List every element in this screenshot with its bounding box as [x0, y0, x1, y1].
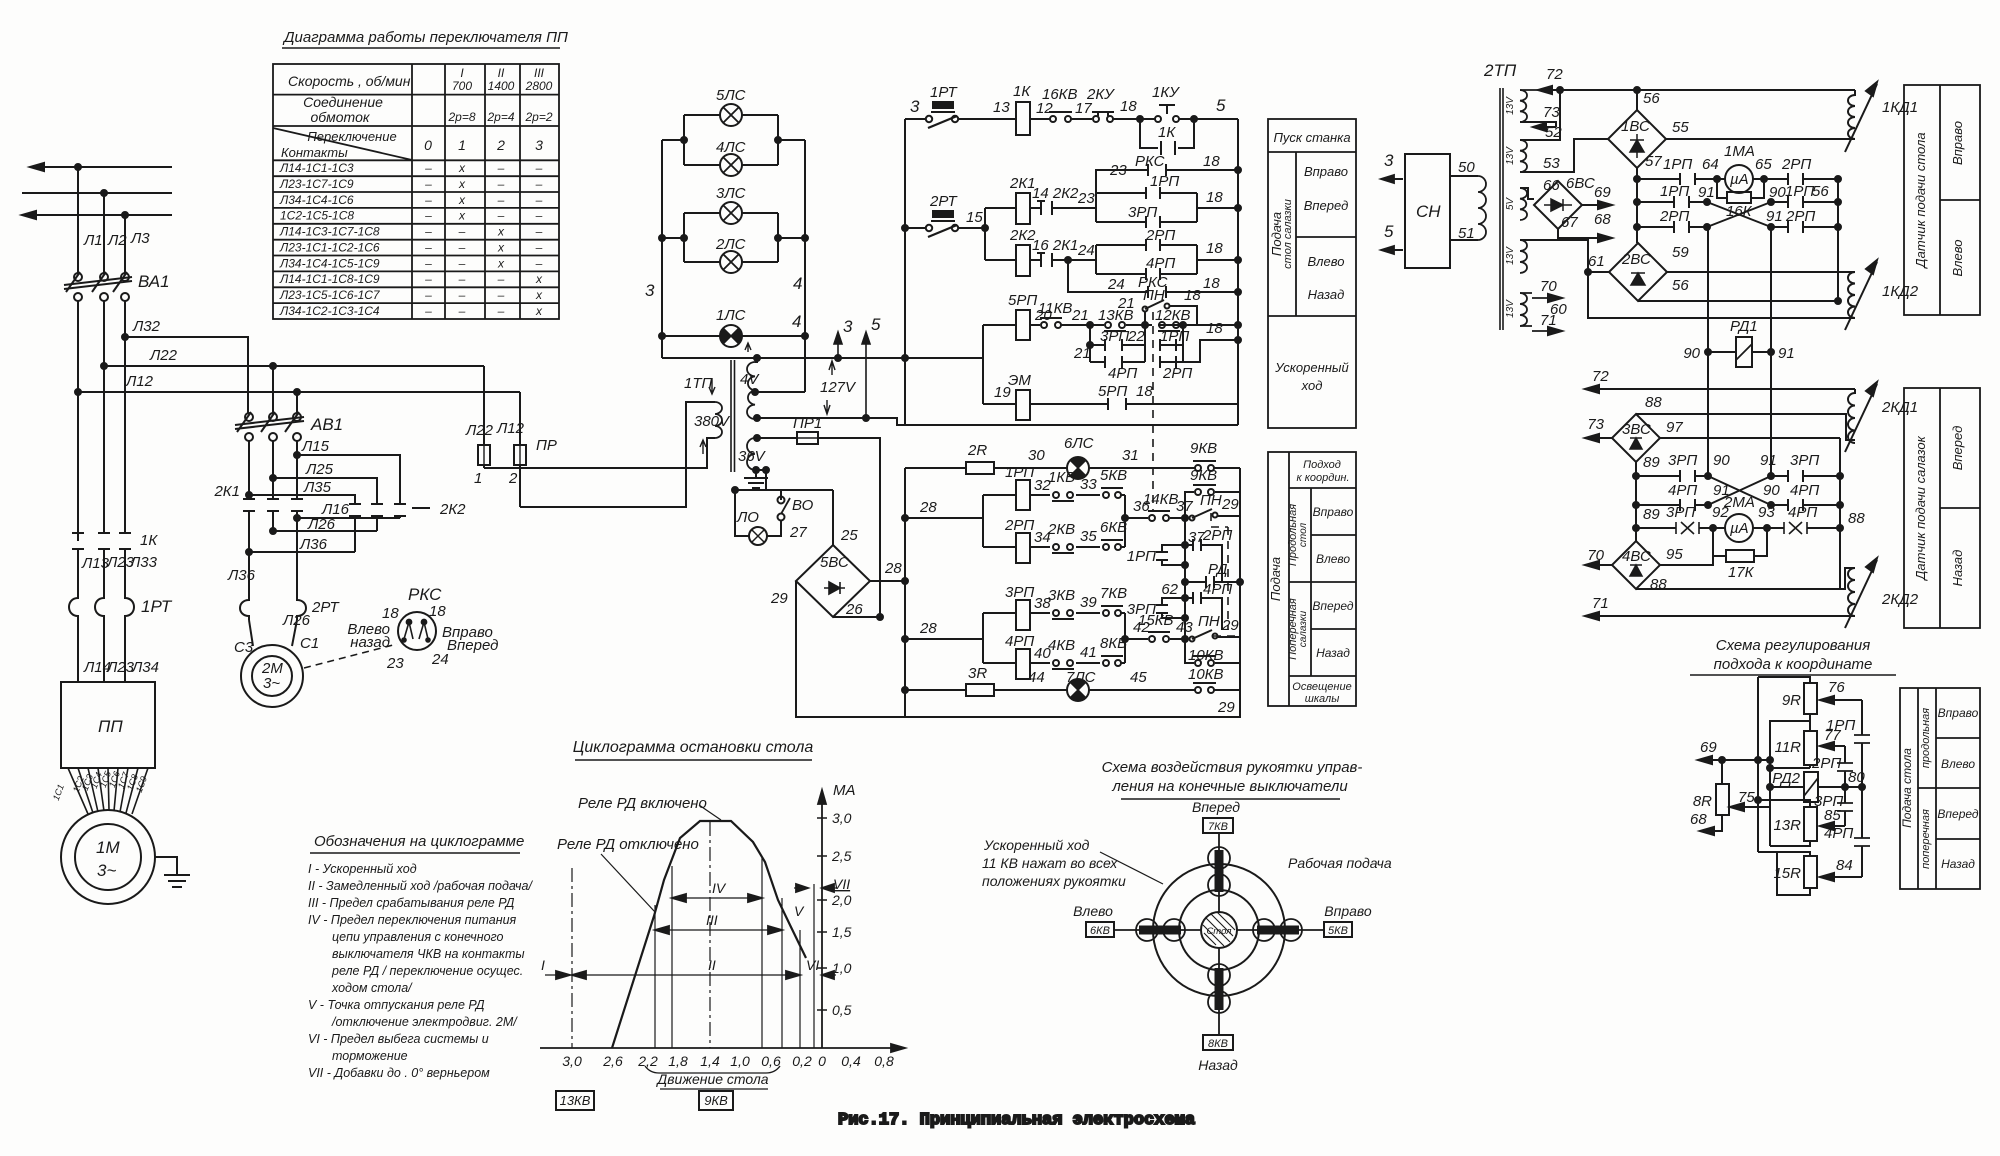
node Л22: [101, 363, 107, 369]
wire Л26: [273, 530, 377, 532]
svg-text:4КВ: 4КВ: [1048, 637, 1075, 654]
tap 66 to 6ВС: [1520, 188, 1534, 199]
svg-text:127V: 127V: [820, 379, 857, 396]
svg-text:1ВС: 1ВС: [1621, 118, 1650, 135]
parallel contacts 2РП / 4РП: [1096, 227, 1241, 280]
svg-text:–: –: [424, 225, 432, 239]
meter 2МА: [1725, 514, 1753, 542]
svg-text:VII: VII: [833, 876, 850, 892]
svg-text:Л23-1С5-1С6-1С7: Л23-1С5-1С6-1С7: [279, 288, 381, 302]
svg-text:Л23: Л23: [106, 659, 135, 676]
svg-text:Влево: Влево: [1308, 254, 1345, 269]
svg-text:3: 3: [910, 97, 920, 116]
wire Л1: [77, 167, 79, 273]
svg-text:18: 18: [1184, 287, 1201, 304]
contact РКС upper (23-18): [1096, 170, 1238, 193]
wire to АВ1 pole3: [296, 392, 298, 413]
svg-text:x: x: [497, 241, 505, 255]
svg-text:Назад: Назад: [1198, 1057, 1238, 1073]
leads into 2М: [249, 620, 297, 646]
svg-text:3РП: 3РП: [1100, 328, 1129, 345]
resistor 17К: [1713, 528, 1767, 556]
svg-text:15: 15: [966, 209, 983, 226]
svg-text:1РП: 1РП: [1127, 548, 1156, 565]
supply line L3: [22, 214, 172, 216]
box 5КВ: [1324, 922, 1352, 937]
stabilizer СН: [1405, 154, 1450, 268]
svg-text:2РТ: 2РТ: [311, 599, 341, 616]
coil 1РП: [983, 494, 1125, 496]
transformer 2ТП core: [1500, 88, 1503, 330]
svg-text:–: –: [458, 225, 466, 239]
horizontal spoke: [1114, 929, 1324, 931]
node L2 drop: [101, 190, 107, 196]
svg-text:21: 21: [1073, 345, 1091, 362]
svg-text:ВО: ВО: [792, 497, 814, 514]
svg-text:Назад: Назад: [1316, 646, 1350, 660]
svg-text:8КВ: 8КВ: [1208, 1038, 1228, 1050]
svg-text:5КВ: 5КВ: [1328, 925, 1348, 937]
svg-text:2р=4: 2р=4: [486, 110, 514, 124]
svg-text:шкалы: шкалы: [1305, 693, 1340, 705]
cross diagonals lower: [1708, 476, 1771, 505]
2ТП primary winding: [1450, 176, 1478, 240]
svg-text:2РП: 2РП: [1659, 208, 1689, 225]
svg-text:3ВС: 3ВС: [1622, 421, 1651, 438]
svg-text:13V: 13V: [1505, 246, 1516, 265]
wire to АВ1 pole2: [272, 366, 274, 413]
svg-text:29: 29: [770, 590, 788, 607]
svg-text:18: 18: [429, 603, 446, 620]
svg-text:89: 89: [1643, 506, 1660, 523]
wires below 2К2: [355, 516, 400, 552]
svg-text:39: 39: [1080, 594, 1097, 611]
svg-text:4РП: 4РП: [1005, 633, 1034, 650]
wires into ПП: [78, 621, 125, 682]
svg-text:назад: назад: [350, 634, 390, 651]
svg-text:–: –: [424, 304, 432, 318]
svg-text:73: 73: [1587, 416, 1604, 433]
mark VII arrow: [824, 887, 836, 889]
svg-text:–: –: [497, 272, 505, 286]
svg-text:1РТ: 1РТ: [930, 84, 959, 101]
svg-text:3РП: 3РП: [1668, 452, 1697, 469]
contact 15КВ: [1149, 636, 1155, 642]
cross net rows: [1634, 199, 1640, 205]
arrow 85: [1820, 825, 1845, 827]
wire 36V bottom to bridge: [763, 467, 769, 473]
svg-text:5РП: 5РП: [1008, 292, 1037, 309]
svg-text:1,0: 1,0: [730, 1053, 750, 1069]
svg-text:23: 23: [1077, 190, 1095, 207]
branch to 5РП / ЭМ: [905, 325, 983, 404]
svg-text:Движение стола: Движение стола: [655, 1071, 768, 1087]
svg-text:56: 56: [1672, 277, 1689, 294]
svg-text:I - Ускоренный ход: I - Ускоренный ход: [308, 862, 417, 876]
svg-text:45: 45: [1130, 669, 1147, 686]
svg-text:0,2: 0,2: [792, 1053, 812, 1069]
svg-text:1РП: 1РП: [1160, 328, 1189, 345]
wire Л15: [297, 455, 400, 503]
wire 9R-11R junction: [1770, 714, 1810, 846]
motor 2М leads: [249, 518, 297, 595]
svg-text:–: –: [458, 272, 466, 286]
svg-text:–: –: [535, 241, 543, 255]
svg-text:–: –: [535, 256, 543, 270]
resistor 8R: [1700, 760, 1722, 831]
svg-text:µА: µА: [1730, 520, 1749, 537]
buses 90 91: [1708, 227, 1771, 476]
wire Л25: [273, 478, 377, 503]
tap 52: [1520, 90, 1560, 140]
reg network left bus: [1757, 677, 1759, 852]
row 4РП 91: [1636, 504, 1840, 506]
svg-text:55: 55: [1672, 119, 1689, 136]
wires below 2К1: [249, 511, 297, 552]
svg-text:Л36: Л36: [227, 567, 256, 584]
4ВС left arrow 70: [1585, 564, 1612, 566]
svg-text:поперечная: поперечная: [1920, 809, 1932, 869]
svg-text:Л33: Л33: [129, 554, 158, 571]
wire 60 / W4 feed: [1520, 240, 1855, 318]
svg-text:III: III: [706, 912, 718, 928]
wire Л32 branch: [125, 337, 248, 413]
svg-text:Л34: Л34: [131, 659, 159, 676]
svg-text:Переключение: Переключение: [307, 129, 396, 144]
svg-text:26: 26: [845, 601, 863, 618]
svg-text:Вперед: Вперед: [1192, 799, 1240, 815]
svg-text:µА: µА: [1730, 171, 1749, 188]
svg-text:Обозначения на циклограмме: Обозначения на циклограмме: [314, 833, 524, 850]
svg-text:6ЛС: 6ЛС: [1064, 435, 1094, 452]
title Схема регулирования подхода к координате: [1714, 637, 1873, 673]
svg-text:4ВС: 4ВС: [1622, 548, 1651, 565]
svg-text:2р=8: 2р=8: [447, 110, 475, 124]
svg-text:РД1: РД1: [1730, 318, 1758, 335]
svg-text:Циклограмма остановки стола: Циклограмма остановки стола: [573, 739, 814, 756]
svg-text:13КВ: 13КВ: [1098, 307, 1134, 324]
svg-text:–: –: [497, 209, 505, 223]
svg-text:69: 69: [1594, 184, 1611, 201]
svg-text:Рабочая подача: Рабочая подача: [1288, 855, 1392, 871]
svg-text:–: –: [535, 209, 543, 223]
coil 2РП: [983, 546, 1125, 548]
mode box 1 (Пуск станка): [1268, 119, 1356, 428]
switch ПН upper: [1190, 516, 1195, 521]
lamp 2ЛС: [720, 251, 742, 273]
svg-text:продольная: продольная: [1920, 708, 1932, 768]
svg-text:3R: 3R: [968, 665, 987, 682]
4ВС right wire 95: [1660, 556, 1713, 565]
motor 1М: [61, 810, 155, 904]
svg-text:1400: 1400: [488, 79, 515, 93]
svg-text:30: 30: [1028, 447, 1045, 464]
table: Диаграмма работы переключателя ПП: [273, 29, 568, 319]
svg-text:II: II: [708, 957, 716, 973]
contact 3РП loop: [1182, 595, 1188, 601]
svg-text:19: 19: [994, 384, 1011, 401]
wire 13R top: [1758, 800, 1810, 807]
svg-text:88: 88: [1848, 510, 1865, 527]
svg-text:Л12: Л12: [496, 420, 525, 437]
svg-text:Подача: Подача: [1268, 557, 1283, 601]
dim IV: [672, 897, 762, 899]
svg-text:Л22: Л22: [465, 422, 494, 439]
svg-text:–: –: [458, 256, 466, 270]
contact 3КВ: [1053, 610, 1059, 616]
main measuring row: [1636, 168, 1638, 243]
outer circle: [1153, 864, 1285, 996]
svg-text:Датчик подачи салазок: Датчик подачи салазок: [1913, 435, 1928, 581]
tap 73: [1520, 122, 1556, 127]
svg-text:Пуск станка: Пуск станка: [1273, 130, 1350, 145]
right bus (node 4): [804, 140, 806, 392]
inductor 2КД2: [1845, 558, 1919, 628]
svg-text:2РП: 2РП: [1785, 208, 1815, 225]
svg-text:Влево: Влево: [1316, 552, 1350, 566]
svg-text:СН: СН: [1416, 202, 1441, 221]
thermal 1РТ loops: [69, 593, 173, 621]
svg-text:Вправо: Вправо: [1950, 121, 1965, 165]
svg-text:1РП: 1РП: [1005, 464, 1034, 481]
svg-text:1РП: 1РП: [1785, 183, 1814, 200]
wire 29 from bridge: [796, 581, 1240, 717]
lamp group bus left (node 3): [661, 140, 663, 358]
svg-text:Л25: Л25: [305, 461, 334, 478]
svg-text:5V: 5V: [1505, 197, 1516, 211]
svg-text:–: –: [497, 304, 505, 318]
parallel contacts 1РП / 3РП: [1096, 173, 1241, 228]
svg-text:13КВ: 13КВ: [560, 1093, 591, 1108]
svg-text:–: –: [424, 209, 432, 223]
svg-text:2ВС: 2ВС: [1621, 251, 1651, 268]
middle contact net vertical: [1184, 518, 1186, 639]
node Л25 tap: [270, 475, 276, 481]
2ТП winding 13V (1): [1520, 90, 1527, 122]
bottom row wire: [905, 689, 1240, 691]
resistor 3R: [966, 684, 994, 696]
svg-text:97: 97: [1666, 419, 1683, 436]
fuse Л22: [483, 366, 485, 468]
svg-text:61: 61: [1588, 253, 1605, 270]
svg-text:1,5: 1,5: [832, 924, 852, 940]
switch ВО: [778, 514, 785, 521]
svg-text:Диаграмма работы переключате: Диаграмма работы переключателя ПП: [282, 29, 568, 46]
svg-text:27: 27: [789, 524, 807, 541]
svg-text:ЭМ: ЭМ: [1008, 372, 1031, 389]
svg-text:9R: 9R: [1782, 692, 1801, 709]
svg-text:1РП: 1РП: [1150, 173, 1179, 190]
svg-text:9КВ: 9КВ: [704, 1093, 728, 1108]
svg-text:1К: 1К: [140, 532, 158, 549]
rectifier 5ВС: [770, 527, 902, 618]
svg-text:Л23-1С1-1С2-1С6: Л23-1С1-1С2-1С6: [279, 241, 380, 255]
svg-text:Л14-1С1-1С3: Л14-1С1-1С3: [279, 161, 354, 175]
svg-text:10КВ: 10КВ: [1188, 647, 1224, 664]
svg-text:Л14-1С1-1С8-1С9: Л14-1С1-1С8-1С9: [279, 272, 380, 286]
lamp 5ЛС: [720, 104, 742, 126]
resistor 16К: [1717, 179, 1764, 198]
svg-text:13: 13: [993, 99, 1010, 116]
svg-text:Скорость , об/мин: Скорость , об/мин: [288, 73, 411, 89]
rectifier 3ВС: [1587, 394, 1683, 462]
svg-text:18: 18: [1120, 98, 1137, 115]
4ВС bottom wire 88 to 2КД2: [1636, 568, 1855, 589]
svg-text:15КВ: 15КВ: [1138, 612, 1174, 629]
resistor 9R: [1804, 683, 1817, 714]
svg-text:x: x: [535, 288, 543, 302]
svg-text:5ВС: 5ВС: [820, 554, 849, 571]
svg-text:5: 5: [871, 315, 881, 334]
svg-text:Л34-1С4-1С6: Л34-1С4-1С6: [279, 193, 354, 207]
svg-text:17К: 17К: [1728, 564, 1755, 581]
contacts 3РП 22 / 1РП row: [1090, 325, 1183, 362]
pushbutton 1КУ: [1155, 116, 1161, 122]
svg-text:18: 18: [1206, 189, 1223, 206]
arrow 3: [834, 332, 842, 358]
svg-text:салазки: салазки: [1298, 610, 1309, 647]
svg-text:ления на конечные выключат: ления на конечные выключатели: [1111, 778, 1348, 795]
svg-text:7КВ: 7КВ: [1208, 821, 1228, 833]
contact 1РП chain: [1861, 700, 1863, 787]
svg-text:VII - Добавки до . 0° верньер: VII - Добавки до . 0° верньером: [308, 1066, 490, 1080]
contact 2РП: [1788, 173, 1803, 185]
svg-text:76: 76: [1828, 679, 1845, 696]
svg-text:7КВ: 7КВ: [1100, 585, 1127, 602]
svg-text:91: 91: [1766, 208, 1783, 225]
svg-text:28: 28: [919, 620, 937, 637]
svg-text:III - Предел срабатывания ре: III - Предел срабатывания реле РД: [308, 896, 515, 910]
svg-text:2: 2: [508, 470, 518, 487]
svg-text:1,8: 1,8: [668, 1053, 688, 1069]
svg-text:1КД1: 1КД1: [1882, 99, 1918, 116]
svg-text:1ТП: 1ТП: [684, 375, 713, 392]
svg-text:8R: 8R: [1693, 793, 1712, 810]
svg-text:3,0: 3,0: [832, 810, 852, 826]
wire Л16: [297, 517, 400, 519]
contact 4РП branch: [1185, 598, 1222, 630]
svg-text:Л15: Л15: [301, 438, 330, 455]
lamp 4ЛС: [720, 154, 742, 176]
coil 3РП: [983, 612, 1125, 614]
svg-text:4V: 4V: [740, 371, 760, 388]
svg-text:11R: 11R: [1775, 739, 1802, 756]
svg-text:1РТ: 1РТ: [141, 597, 173, 616]
svg-text:88: 88: [1650, 576, 1667, 593]
wire 26 from bridge: [833, 616, 880, 618]
svg-text:реле РД / переключение осуще: реле РД / переключение осущес.: [331, 964, 523, 978]
contact 2РП chain: [1844, 746, 1846, 787]
dim II: [572, 974, 800, 976]
svg-text:1КУ: 1КУ: [1152, 84, 1180, 101]
center Стол hatched: [1201, 912, 1237, 948]
lamp pair box 3ЛС/2ЛС: [662, 213, 805, 262]
svg-text:1МА: 1МА: [1724, 143, 1755, 160]
top rollers and cam: [1208, 847, 1230, 869]
svg-text:10КВ: 10КВ: [1188, 666, 1224, 683]
dim III: [655, 929, 782, 931]
contact 2К1 n.c.: [1037, 253, 1052, 267]
mode box 2 (Подача): [1268, 452, 1356, 706]
2ТП winding 13V (4): [1520, 293, 1527, 326]
svg-text:x: x: [458, 177, 466, 191]
svg-text:4РП: 4РП: [1790, 482, 1819, 499]
svg-text:1ЛС: 1ЛС: [716, 307, 746, 324]
svg-text:Датчик подачи стола: Датчик подачи стола: [1913, 132, 1928, 269]
svg-text:Л12: Л12: [125, 373, 154, 390]
svg-text:12КВ: 12КВ: [1155, 307, 1191, 324]
supply line L1: [30, 166, 172, 168]
svg-text:РКС: РКС: [408, 585, 442, 604]
svg-text:выключателя ЧКВ на контакты: выключателя ЧКВ на контакты: [332, 947, 525, 961]
rectifier 2ВС: [1588, 243, 1689, 301]
inner circle: [1179, 890, 1259, 970]
brace Движение стола: [645, 1066, 780, 1073]
contactor 2К1 contacts: [213, 483, 303, 511]
svg-text:Подход: Подход: [1303, 459, 1341, 471]
wire 127V lower rail: [757, 418, 905, 425]
svg-text:4РП: 4РП: [1788, 504, 1817, 521]
svg-text:59: 59: [1672, 244, 1689, 261]
svg-text:28: 28: [919, 499, 937, 516]
svg-text:3~: 3~: [263, 675, 280, 692]
svg-text:5ЛС: 5ЛС: [716, 87, 746, 104]
svg-text:–: –: [535, 177, 543, 191]
contact РКС lower (24-18): [1065, 257, 1071, 263]
rail Л2 lower: [103, 301, 105, 532]
svg-text:Вперед: Вперед: [1312, 599, 1353, 613]
svg-text:Влево: Влево: [1941, 757, 1975, 771]
svg-text:0,4: 0,4: [841, 1053, 861, 1069]
svg-text:–: –: [535, 161, 543, 175]
lamp 7ЛС: [1067, 679, 1089, 701]
right column: [1837, 179, 1839, 301]
top wire to 9R: [1758, 677, 1810, 683]
svg-text:24: 24: [1077, 242, 1095, 259]
svg-text:84: 84: [1836, 857, 1853, 874]
branch 28 lower: [905, 613, 983, 663]
svg-text:Ускоренный: Ускоренный: [1274, 360, 1348, 375]
lamp 3ЛС: [720, 202, 742, 224]
svg-text:62: 62: [1161, 581, 1178, 598]
node АВ1 pole3 tap: [294, 389, 300, 395]
svg-text:13R: 13R: [1773, 817, 1801, 834]
svg-text:Вперед: Вперед: [1304, 198, 1349, 213]
sensor table стол: [1904, 85, 1980, 315]
svg-text:23: 23: [386, 655, 404, 672]
svg-text:1РП: 1РП: [1826, 717, 1855, 734]
box 7КВ: [1203, 818, 1233, 833]
1ТП primary 380V: [715, 402, 722, 438]
node Л35 tap: [246, 492, 252, 498]
contact РД row 62: [1182, 579, 1188, 585]
svg-text:2РП: 2РП: [1004, 517, 1034, 534]
box 13КВ: [556, 1091, 594, 1110]
svg-text:5: 5: [1384, 222, 1394, 241]
svg-text:2РП: 2РП: [1811, 755, 1841, 772]
contactor 2К2 contacts: [349, 501, 466, 518]
svg-text:Л35: Л35: [303, 479, 332, 496]
feed block left rail: [904, 468, 906, 718]
coil 4РП: [983, 662, 1125, 664]
svg-text:стол салазки: стол салазки: [1282, 199, 1294, 269]
svg-text:4РП: 4РП: [1146, 255, 1175, 272]
svg-text:2,0: 2,0: [831, 892, 852, 908]
svg-text:2R: 2R: [967, 442, 987, 459]
svg-text:Влево: Влево: [1073, 903, 1113, 919]
lamp 1ЛС (signal, half filled): [720, 325, 742, 347]
svg-text:14КВ: 14КВ: [1143, 491, 1179, 508]
